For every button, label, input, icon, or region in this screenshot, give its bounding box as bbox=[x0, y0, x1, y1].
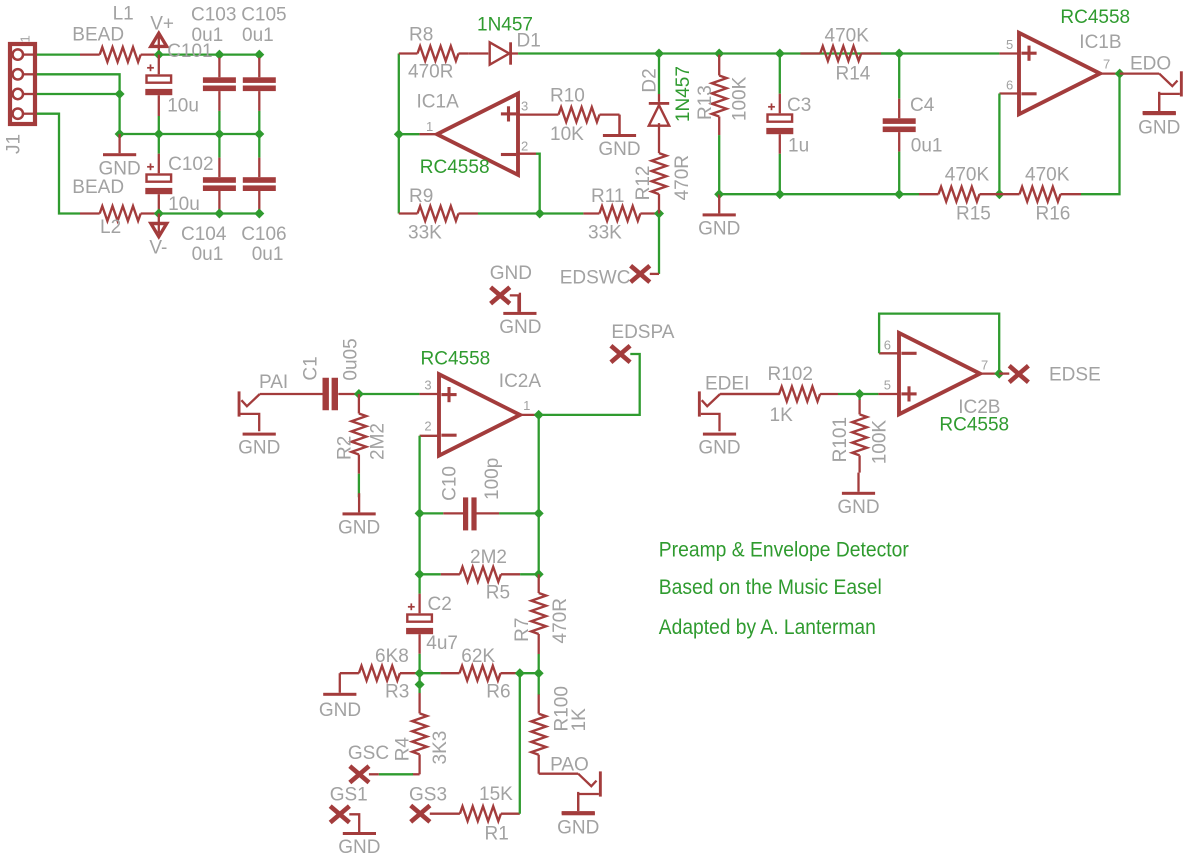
wire D1 cathode lead bbox=[512, 52, 518, 54]
svg-text:IC1A: IC1A bbox=[417, 92, 460, 113]
node junction bbox=[254, 50, 264, 60]
node junction bbox=[775, 189, 785, 199]
wire C105 top bbox=[258, 55, 260, 58]
ground bar bbox=[243, 433, 276, 436]
power V+ symbol bbox=[151, 33, 167, 46]
svg-text:R1: R1 bbox=[485, 824, 509, 845]
svg-text:R10: R10 bbox=[550, 86, 585, 107]
node junction bbox=[855, 389, 865, 399]
wire R7 to R6 node bbox=[538, 654, 540, 673]
wire C106 top lead bbox=[258, 158, 260, 178]
svg-text:R2: R2 bbox=[335, 436, 356, 460]
svg-text:3: 3 bbox=[521, 99, 528, 114]
wire C3 top lead bbox=[779, 94, 781, 114]
svg-text:C2: C2 bbox=[428, 594, 452, 615]
wire GSC pin bbox=[369, 773, 379, 775]
node EDSPA flag bbox=[611, 346, 630, 362]
svg-text:2M2: 2M2 bbox=[470, 547, 507, 568]
wire GND rail bbox=[120, 133, 260, 135]
capacitor C101 10u bbox=[145, 64, 172, 95]
wire IC1A pin2 down bbox=[536, 154, 540, 214]
svg-text:62K: 62K bbox=[461, 646, 495, 667]
node junction bbox=[415, 569, 425, 579]
wire C10 left bbox=[420, 512, 444, 514]
node EDSE flag bbox=[1009, 366, 1028, 382]
wire J1 pin1 to L1 bbox=[37, 53, 80, 55]
wire top rail bbox=[659, 52, 899, 54]
wire C4 top bbox=[898, 54, 900, 99]
resistor L1 bbox=[80, 47, 159, 62]
svg-text:R15: R15 bbox=[956, 203, 991, 224]
resistor R2 bbox=[352, 394, 367, 474]
wire R6 right bbox=[520, 672, 539, 674]
node junction bbox=[894, 49, 904, 59]
svg-text:470R: 470R bbox=[408, 62, 453, 83]
wire J1 pin3 bbox=[37, 93, 120, 95]
svg-text:GND: GND bbox=[557, 818, 599, 839]
connector jack EDO bbox=[1120, 71, 1183, 111]
ground bbox=[343, 493, 376, 515]
resistor R101 bbox=[852, 400, 867, 473]
svg-text:470R: 470R bbox=[550, 598, 571, 643]
wire R5 right bbox=[520, 573, 539, 575]
ground bbox=[103, 134, 136, 156]
resistor R6 bbox=[440, 666, 519, 681]
wire J1 pin4 to L2 bbox=[37, 114, 80, 214]
capacitor C106 0u1 bbox=[243, 177, 276, 191]
node junction bbox=[534, 668, 544, 678]
node junction bbox=[415, 680, 425, 690]
wire filter bottom rail bbox=[719, 193, 919, 195]
node junction bbox=[994, 189, 1004, 199]
resistor R16 bbox=[999, 187, 1081, 202]
wire D2 cathode lead bbox=[658, 94, 660, 102]
op-amp IC1A bbox=[437, 94, 518, 175]
wire C4 to bottom rail bbox=[898, 152, 900, 195]
capacitor C3 1u bbox=[766, 103, 793, 134]
svg-text:RC4558: RC4558 bbox=[1060, 7, 1130, 28]
svg-text:1: 1 bbox=[523, 398, 530, 413]
svg-text:EDSE: EDSE bbox=[1049, 364, 1101, 385]
svg-text:R3: R3 bbox=[385, 682, 409, 703]
node GS3 flag bbox=[411, 806, 430, 822]
resistor R102 bbox=[720, 387, 838, 402]
op-amp IC1B pin7 lead bbox=[1100, 72, 1120, 74]
op-amp IC1B pin5 lead bbox=[999, 52, 1019, 54]
svg-text:1K: 1K bbox=[569, 708, 590, 732]
svg-text:R11: R11 bbox=[591, 186, 624, 207]
svg-text:7: 7 bbox=[1103, 56, 1110, 71]
op-amp IC1B pin6 lead bbox=[999, 92, 1019, 94]
wire R100 top bbox=[538, 673, 540, 694]
wire R3 to ground bbox=[339, 673, 341, 693]
svg-text:IC2A: IC2A bbox=[499, 371, 542, 392]
svg-text:10K: 10K bbox=[550, 124, 584, 145]
connector J1 pin 3 bbox=[13, 89, 23, 99]
wire V- rail bbox=[159, 212, 259, 214]
wire IC1A left loop vertical bbox=[398, 54, 400, 214]
node junction bbox=[415, 668, 425, 678]
svg-text:R12: R12 bbox=[633, 166, 654, 201]
wire R101 top bbox=[858, 394, 860, 400]
op-amp IC2B pin6 lead bbox=[879, 352, 899, 354]
ground bbox=[703, 194, 736, 216]
svg-text:0u1: 0u1 bbox=[192, 25, 224, 46]
node junction bbox=[154, 50, 164, 60]
svg-text:1N457: 1N457 bbox=[673, 66, 694, 122]
op-amp IC2A pin1 lead bbox=[521, 414, 539, 416]
node junction bbox=[534, 508, 544, 518]
wire C104 top lead bbox=[218, 158, 220, 178]
svg-text:PAI: PAI bbox=[259, 372, 288, 393]
svg-text:470K: 470K bbox=[945, 164, 990, 185]
wire IC1B pin6 feedback bbox=[998, 94, 1000, 195]
svg-text:6: 6 bbox=[1006, 77, 1013, 92]
wire R14 right to C4 node bbox=[881, 52, 999, 54]
svg-text:10u: 10u bbox=[167, 96, 199, 117]
wire IC2A pin2 feedback vertical bbox=[418, 436, 420, 594]
capacitor C4 0u1 bbox=[883, 118, 916, 132]
capacitor C10 100p bbox=[463, 497, 477, 530]
wire C101 to GND rail bbox=[158, 116, 160, 134]
svg-text:IC1B: IC1B bbox=[1079, 32, 1121, 53]
node junction bbox=[415, 508, 425, 518]
svg-text:GND: GND bbox=[490, 263, 532, 284]
svg-text:GND: GND bbox=[698, 219, 740, 240]
svg-text:C1: C1 bbox=[301, 356, 322, 380]
svg-text:GS1: GS1 bbox=[330, 785, 368, 806]
resistor R7 bbox=[531, 574, 546, 654]
svg-text:EDO: EDO bbox=[1130, 54, 1171, 75]
power V- symbol bbox=[158, 214, 160, 234]
node junction bbox=[654, 49, 664, 59]
connector jack PAO bbox=[539, 771, 602, 811]
capacitor C103 0u1 bbox=[203, 77, 236, 91]
wire D1 anode lead bbox=[469, 52, 489, 54]
svg-text:GND: GND bbox=[499, 317, 541, 338]
svg-text:100K: 100K bbox=[730, 76, 751, 121]
wire C3 to bottom rail bbox=[779, 154, 781, 194]
svg-text:5: 5 bbox=[1006, 37, 1013, 52]
node junction bbox=[515, 668, 525, 678]
wire C106 top bbox=[258, 134, 260, 158]
node junction bbox=[154, 209, 164, 219]
svg-text:R4: R4 bbox=[392, 737, 413, 762]
wire C104 top bbox=[218, 134, 220, 158]
svg-text:7: 7 bbox=[981, 358, 988, 373]
op-amp IC2B pin7 lead bbox=[979, 372, 999, 374]
wire GS1 to ground bbox=[349, 814, 359, 832]
svg-text:1u: 1u bbox=[788, 136, 809, 157]
ground bbox=[1143, 92, 1176, 114]
wire J1 pin2 bbox=[37, 74, 120, 134]
wire C102 bottom lead bbox=[158, 194, 160, 213]
wire R12 to EDSWC bbox=[658, 214, 660, 274]
svg-text:Preamp & Envelope Detector: Preamp & Envelope Detector bbox=[659, 538, 909, 561]
svg-text:C103: C103 bbox=[191, 5, 236, 26]
resistor R15 bbox=[919, 187, 999, 202]
svg-text:Based on the Music Easel: Based on the Music Easel bbox=[659, 576, 882, 599]
ground bbox=[603, 115, 636, 137]
svg-text:GSC: GSC bbox=[348, 743, 389, 764]
node junction bbox=[775, 49, 785, 59]
svg-text:GND: GND bbox=[598, 139, 640, 160]
svg-text:R13: R13 bbox=[695, 85, 716, 120]
svg-text:0u1: 0u1 bbox=[192, 244, 224, 265]
node junction bbox=[115, 89, 125, 99]
node junction bbox=[534, 410, 544, 420]
svg-text:C4: C4 bbox=[910, 95, 935, 116]
wire D1 to node bbox=[518, 52, 659, 54]
svg-text:1: 1 bbox=[18, 35, 33, 42]
capacitor C105 0u1 bbox=[243, 77, 276, 91]
svg-text:V+: V+ bbox=[150, 13, 174, 34]
svg-text:6K8: 6K8 bbox=[375, 646, 409, 667]
wire C105 top lead bbox=[258, 58, 260, 78]
wire R6 left bbox=[420, 672, 441, 674]
capacitor C102 10u bbox=[145, 163, 172, 194]
diode D1 bbox=[490, 42, 512, 64]
svg-text:GND: GND bbox=[338, 837, 380, 858]
wire C106 bottom lead bbox=[258, 191, 260, 214]
wire IC1A output bbox=[399, 133, 420, 135]
node junction bbox=[714, 189, 724, 199]
resistor R4 bbox=[412, 693, 427, 774]
node junction bbox=[994, 369, 1004, 379]
resistor R3 bbox=[340, 666, 420, 681]
svg-text:L1: L1 bbox=[113, 4, 134, 25]
node junction bbox=[214, 50, 224, 60]
wire C3 top bbox=[779, 54, 781, 94]
svg-text:1K: 1K bbox=[770, 405, 794, 426]
node junction bbox=[654, 209, 664, 219]
svg-text:470R: 470R bbox=[672, 155, 693, 200]
wire R10 to ground bbox=[618, 115, 620, 134]
svg-text:2: 2 bbox=[521, 139, 528, 154]
svg-text:6: 6 bbox=[884, 338, 891, 353]
wire C103 bottom lead bbox=[218, 91, 220, 111]
svg-text:0u1: 0u1 bbox=[911, 136, 943, 157]
svg-text:15K: 15K bbox=[479, 784, 513, 805]
node junction bbox=[254, 129, 264, 139]
wire R16 to output bbox=[1081, 74, 1120, 195]
wire R6 node to R1 bbox=[519, 673, 521, 814]
capacitor C1 0u05 bbox=[323, 378, 339, 411]
svg-text:C3: C3 bbox=[787, 95, 811, 116]
svg-text:R14: R14 bbox=[836, 64, 871, 85]
svg-text:470K: 470K bbox=[1025, 164, 1070, 185]
wire IC2A out to EDSPA bbox=[539, 354, 640, 415]
wire R5 left bbox=[420, 573, 441, 575]
wire C103 top bbox=[218, 55, 220, 58]
node GSC flag bbox=[350, 766, 369, 782]
svg-text:R6: R6 bbox=[486, 682, 510, 703]
wire C10 right lead bbox=[476, 512, 499, 514]
node junction bbox=[714, 49, 724, 59]
ground bbox=[323, 693, 356, 696]
node junction bbox=[115, 129, 125, 139]
connector jack PAI bbox=[238, 391, 323, 431]
wire IC2A out vertical bbox=[538, 415, 540, 574]
svg-text:GS3: GS3 bbox=[409, 785, 447, 806]
svg-text:RC4558: RC4558 bbox=[939, 415, 1009, 436]
connector J1 bbox=[10, 44, 35, 124]
svg-text:BEAD: BEAD bbox=[72, 177, 124, 198]
wire R102 to R101 bbox=[838, 393, 878, 395]
op-amp IC2B bbox=[899, 333, 980, 414]
svg-text:5: 5 bbox=[884, 378, 891, 393]
wire R13 to GND rail bbox=[718, 135, 720, 194]
wire node to D2 bbox=[658, 54, 660, 95]
resistor R10 bbox=[542, 107, 620, 122]
node junction bbox=[534, 569, 544, 579]
node junction bbox=[154, 129, 164, 139]
wire C104 bottom lead bbox=[218, 191, 220, 214]
ground bar bbox=[562, 812, 595, 815]
svg-text:D2: D2 bbox=[639, 68, 660, 92]
connector J1 pin 4 bbox=[13, 109, 23, 119]
op-amp IC2B pin5 lead bbox=[878, 393, 899, 395]
svg-text:0u05: 0u05 bbox=[341, 338, 362, 380]
svg-text:RC4558: RC4558 bbox=[420, 157, 490, 178]
svg-text:J1: J1 bbox=[4, 134, 25, 154]
wire C4 top lead bbox=[898, 99, 900, 119]
node junction bbox=[214, 129, 224, 139]
ground bbox=[562, 792, 595, 814]
svg-text:R7: R7 bbox=[512, 618, 533, 642]
svg-text:2M2: 2M2 bbox=[367, 423, 388, 460]
svg-text:C105: C105 bbox=[241, 5, 286, 26]
ground bar bbox=[703, 433, 736, 436]
svg-text:R9: R9 bbox=[409, 186, 433, 207]
svg-text:C106: C106 bbox=[241, 224, 286, 245]
wire R4 to GSC bbox=[379, 773, 413, 775]
op-amp IC2A bbox=[439, 374, 520, 455]
op-amp IC1A pin2 lead bbox=[518, 153, 536, 155]
resistor R8 bbox=[399, 46, 469, 61]
svg-text:C102: C102 bbox=[168, 154, 213, 175]
wire EDSWC pin bbox=[650, 273, 659, 275]
svg-text:100K: 100K bbox=[869, 420, 890, 465]
op-amp IC1B bbox=[1019, 33, 1100, 114]
svg-text:EDEI: EDEI bbox=[705, 374, 749, 395]
svg-text:V-: V- bbox=[149, 238, 167, 259]
wire C4 bottom lead bbox=[898, 132, 900, 152]
ground bbox=[343, 832, 376, 835]
diode D2 bbox=[649, 102, 669, 126]
wire R4 corner bbox=[412, 773, 420, 775]
svg-text:10u: 10u bbox=[168, 194, 200, 215]
svg-text:GND: GND bbox=[837, 497, 879, 518]
wire C3 bottom lead bbox=[779, 134, 781, 154]
wire C2 to R3 node bbox=[418, 654, 420, 693]
wire C103 top lead bbox=[218, 58, 220, 78]
node junction bbox=[1115, 69, 1125, 79]
wire C105 bottom lead bbox=[258, 91, 260, 111]
svg-text:Adapted by A. Lanterman: Adapted by A. Lanterman bbox=[659, 616, 876, 639]
capacitor C104 0u1 bbox=[203, 177, 236, 191]
wire C101 bottom lead bbox=[158, 95, 160, 116]
svg-text:L2: L2 bbox=[100, 217, 121, 238]
node GND stub flag bbox=[491, 287, 510, 303]
resistor R1 bbox=[430, 806, 520, 821]
wire R9 to R11 bbox=[478, 212, 583, 214]
svg-text:GND: GND bbox=[319, 700, 361, 721]
svg-text:BEAD: BEAD bbox=[72, 24, 124, 45]
svg-text:3: 3 bbox=[424, 377, 431, 392]
resistor R11 bbox=[583, 206, 659, 221]
ground bbox=[503, 293, 536, 315]
wire R2 to ground bbox=[358, 474, 360, 498]
svg-text:0u1: 0u1 bbox=[242, 25, 274, 46]
node junction bbox=[394, 129, 404, 139]
resistor R9 bbox=[399, 206, 478, 221]
svg-text:PAO: PAO bbox=[550, 754, 589, 775]
svg-text:R8: R8 bbox=[409, 25, 433, 46]
svg-text:2: 2 bbox=[424, 419, 431, 434]
svg-text:100p: 100p bbox=[482, 458, 503, 500]
svg-text:GND: GND bbox=[698, 438, 740, 459]
svg-text:C10: C10 bbox=[440, 466, 461, 501]
wire GND stub bbox=[510, 295, 519, 312]
wire C105 to GND rail bbox=[258, 111, 260, 134]
svg-text:D1: D1 bbox=[517, 30, 541, 51]
wire C2 top lead bbox=[418, 594, 420, 614]
svg-text:GND: GND bbox=[338, 518, 380, 539]
ground bar bbox=[1143, 112, 1176, 115]
svg-text:33K: 33K bbox=[408, 223, 442, 244]
ground bbox=[842, 473, 875, 495]
svg-text:GND: GND bbox=[1138, 117, 1180, 138]
svg-text:R102: R102 bbox=[768, 364, 813, 385]
node junction bbox=[894, 189, 904, 199]
svg-text:GND: GND bbox=[238, 438, 280, 459]
svg-text:RC4558: RC4558 bbox=[421, 349, 491, 370]
connector J1 pin 1 bbox=[13, 49, 23, 59]
wire C10 right bbox=[499, 512, 539, 514]
node junction bbox=[354, 389, 364, 399]
resistor R13 bbox=[712, 54, 727, 136]
svg-text:R101: R101 bbox=[830, 417, 851, 462]
svg-text:4u7: 4u7 bbox=[426, 633, 458, 654]
svg-text:0u1: 0u1 bbox=[252, 244, 284, 265]
resistor R100 bbox=[531, 694, 546, 774]
svg-text:33K: 33K bbox=[588, 223, 622, 244]
connector J1 pin 2 bbox=[13, 69, 23, 79]
op-amp IC2A pin2 lead bbox=[420, 435, 439, 437]
resistor L2 bbox=[80, 206, 159, 221]
svg-text:3K3: 3K3 bbox=[430, 731, 451, 765]
wire C1 right lead bbox=[338, 393, 359, 395]
svg-text:R5: R5 bbox=[486, 583, 510, 604]
wire C102 top bbox=[158, 134, 160, 154]
wire C10 left lead bbox=[443, 512, 463, 514]
wire C1 to IC2A pin3 bbox=[359, 393, 420, 395]
svg-text:R16: R16 bbox=[1036, 203, 1071, 224]
wire C101 top lead bbox=[158, 55, 160, 75]
op-amp IC2A pin3 lead bbox=[419, 393, 439, 395]
svg-text:C104: C104 bbox=[181, 224, 227, 245]
svg-text:1: 1 bbox=[426, 119, 433, 134]
resistor R12 bbox=[652, 123, 667, 213]
wire V+ rail bbox=[159, 53, 259, 55]
svg-text:EDSPA: EDSPA bbox=[611, 322, 674, 343]
wire C2 bottom lead bbox=[418, 634, 420, 654]
connector jack EDEI bbox=[698, 391, 780, 431]
resistor R14 bbox=[800, 46, 881, 61]
capacitor C2 4u7 bbox=[406, 603, 433, 634]
resistor R5 bbox=[441, 567, 520, 582]
